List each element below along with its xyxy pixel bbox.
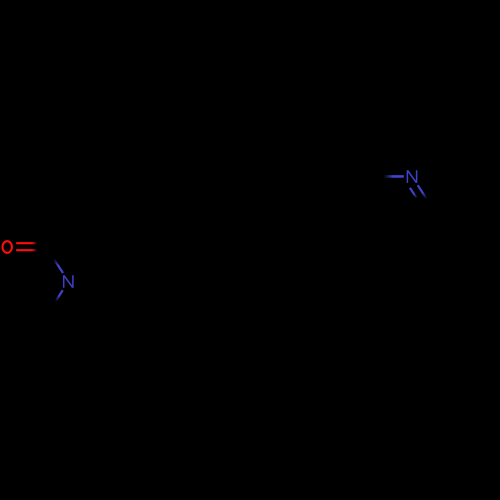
atom N1 label (amide nitrogen) [64,275,73,288]
bond N2=C4 main line (blue half near N) [418,185,433,208]
bond C1=O1 double bond upper line (red half) [16,242,46,244]
bond C1=O1 double bond lower line (red half) [16,249,46,251]
atom N2 label (pyridine nitrogen) [407,170,416,183]
bond N2=C4 inner double-bond line (blue half near N) [410,188,421,205]
bond C1-N1 (blue half near N) [46,247,63,273]
atom O1 label [3,241,12,253]
bond N1-CH3 (blue half near N) [51,290,63,309]
bond C3-N2 (blue half near ring N) [379,175,404,178]
